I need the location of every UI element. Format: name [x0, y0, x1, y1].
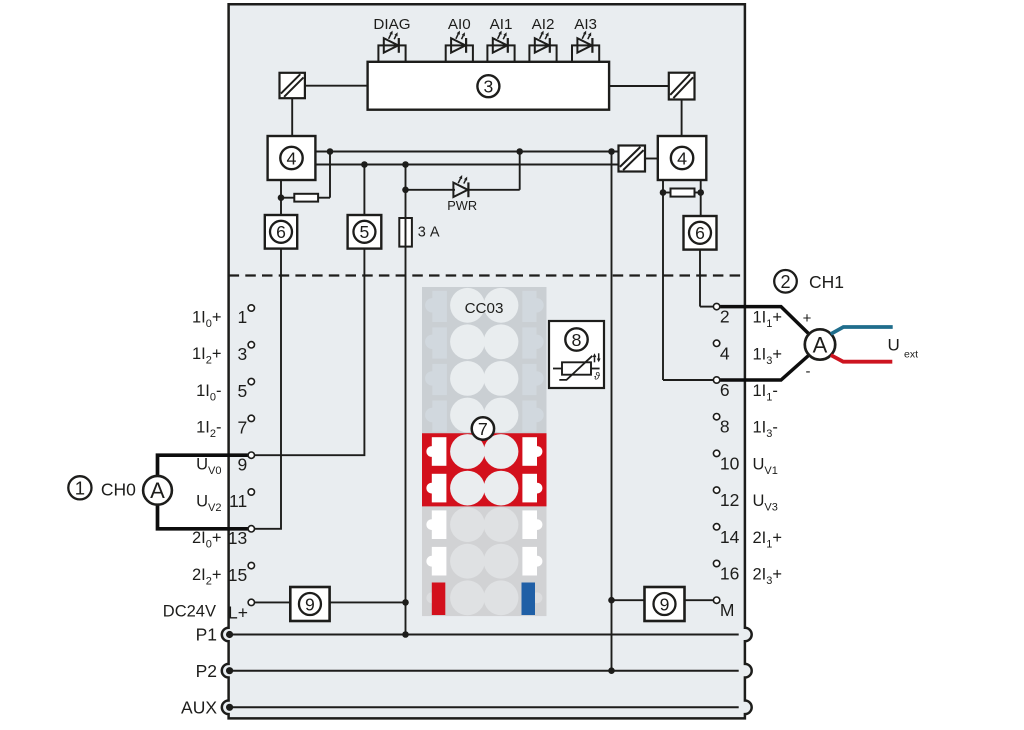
isolation barrier right top: [669, 73, 695, 100]
junction x611 P2: [608, 667, 615, 674]
svg-text:AI1: AI1: [490, 16, 513, 33]
block 9 right (protection): [645, 587, 685, 621]
wire PWR branch right: [469, 189, 520, 191]
junction PWR branch: [402, 187, 409, 194]
wire PWR branch left: [406, 189, 456, 191]
dashed separator (channel boundary): [229, 274, 745, 276]
block 3 (ADC/logic): [368, 62, 609, 110]
terminal point 10 (right): [713, 450, 719, 456]
svg-text:2: 2: [780, 272, 790, 292]
terminal point 8 (right): [713, 414, 719, 420]
block 5 (voltage input): [348, 215, 382, 249]
block 9 left (reverse polarity protection): [290, 587, 329, 621]
svg-text:2I2+: 2I2+: [192, 566, 222, 588]
wire jog to terminal 2: [700, 306, 714, 308]
wire terminal 2 to ammeter: [719, 307, 809, 335]
terminal point 12 (right): [713, 487, 719, 493]
svg-text:UV2: UV2: [196, 492, 221, 514]
svg-text:UV0: UV0: [196, 456, 221, 478]
terminal point 13 (left): [248, 526, 254, 532]
bottom bus wire: [315, 164, 618, 166]
ammeter A (CH1): [805, 329, 835, 359]
junction top bus x519: [516, 148, 523, 155]
terminal point 16 (right): [713, 560, 719, 566]
terminal L+ wire to block 9 left: [254, 601, 290, 603]
isolation barrier left: [280, 73, 305, 98]
wire block6L down to terminal 13: [254, 249, 281, 529]
module body outline: [222, 4, 752, 718]
svg-text:16: 16: [720, 564, 739, 584]
svg-text:3: 3: [237, 344, 247, 364]
svg-text:7: 7: [478, 419, 488, 439]
resistor right lead left: [663, 192, 671, 194]
circled 3 label: [477, 75, 499, 97]
contact dot AUX: [226, 704, 233, 711]
wire ammeter CH0 bottom: [158, 505, 255, 529]
legend 2 (channel 1): [774, 270, 797, 293]
svg-text:4: 4: [720, 343, 730, 363]
resistor right body: [671, 189, 695, 197]
resistor R left: [294, 194, 318, 202]
svg-text:UV1: UV1: [753, 455, 778, 477]
wire PWR up to top bus: [519, 152, 521, 190]
svg-text:CH1: CH1: [809, 272, 844, 292]
wire U ext positive (blue): [831, 327, 893, 334]
svg-text:9: 9: [305, 594, 315, 614]
LED AI2 with stub: [529, 31, 556, 62]
junction bottom bus x364: [361, 161, 368, 168]
svg-text:12: 12: [720, 490, 739, 510]
terminal point 14 (right): [713, 524, 719, 530]
svg-text:1: 1: [237, 307, 247, 327]
svg-text:2I1+: 2I1+: [753, 529, 783, 551]
terminal point 11 (left): [248, 489, 254, 495]
svg-text:CC03: CC03: [465, 300, 504, 317]
block 6 left (input circuit): [265, 215, 297, 249]
svg-text:2I3+: 2I3+: [753, 566, 783, 588]
wire ammeter CH0 top: [158, 455, 255, 476]
svg-text:PWR: PWR: [447, 198, 477, 213]
wire terminal 9 to block 5: [254, 249, 364, 456]
wire top bus junction down to P2: [611, 152, 613, 671]
terminal block coding element CC03: [422, 287, 547, 616]
terminal point 5 (left): [248, 378, 254, 384]
svg-text:3: 3: [484, 77, 494, 97]
wire block5 up to bottom bus: [363, 165, 365, 216]
block 8 (varistor/thermistor protection): [549, 321, 604, 388]
svg-text:ext: ext: [904, 349, 918, 361]
svg-text:8: 8: [572, 330, 582, 350]
svg-text:1I0-: 1I0-: [196, 382, 221, 404]
svg-text:1I2-: 1I2-: [196, 419, 221, 441]
block 6 right (current limiter): [684, 216, 717, 250]
junction right resistor left: [660, 189, 667, 196]
junction top bus x611: [608, 148, 615, 155]
isolation barrier right mid: [619, 146, 646, 172]
svg-text:5: 5: [237, 381, 247, 401]
svg-text:1I1+: 1I1+: [753, 309, 783, 331]
LED AI3 with stub: [572, 31, 599, 62]
ammeter A (CH0): [143, 476, 172, 505]
junction top bus x330: [327, 148, 334, 155]
wire block9R to terminal M: [685, 599, 714, 601]
wire right isolator down to block 4 right: [681, 100, 683, 137]
svg-text:1I2+: 1I2+: [192, 345, 222, 367]
wire mid isolator to block4R: [645, 158, 658, 160]
junction x611 M wire: [608, 597, 615, 604]
wire block3 to right isolator: [609, 85, 669, 87]
svg-text:4: 4: [677, 148, 687, 168]
wire terminal 6 to ammeter: [719, 355, 809, 380]
svg-text:1I3-: 1I3-: [753, 419, 778, 441]
contact dot P2: [226, 667, 233, 674]
wire block4L down to block 6: [280, 180, 282, 215]
svg-text:11: 11: [229, 491, 247, 511]
wire block4R pin B down: [700, 180, 702, 216]
svg-text:A: A: [150, 478, 165, 503]
wire block6R down to terminal 2: [699, 250, 701, 307]
terminal point L+ (left): [248, 599, 254, 605]
junction right resistor right: [697, 189, 704, 196]
svg-text:3 A: 3 A: [418, 225, 440, 241]
svg-text:4: 4: [287, 148, 297, 168]
rail P1: [229, 634, 739, 636]
svg-text:14: 14: [720, 527, 740, 547]
svg-text:2: 2: [720, 307, 730, 327]
svg-text:5: 5: [360, 222, 370, 242]
legend 1 (channel 0): [68, 476, 91, 499]
svg-text:AI3: AI3: [574, 16, 597, 33]
wire block4R pin A down: [662, 180, 664, 380]
rail AUX: [229, 706, 739, 708]
resistor left lead: [281, 197, 294, 199]
svg-text:1: 1: [75, 477, 85, 498]
svg-text:9: 9: [660, 594, 670, 614]
svg-text:CH0: CH0: [101, 479, 136, 499]
terminal point M (right): [713, 597, 719, 603]
circled 7 label (coding element): [472, 417, 494, 439]
wire bottom bus to fuse: [405, 165, 407, 219]
svg-text:6: 6: [695, 223, 705, 243]
svg-text:9: 9: [237, 454, 247, 474]
svg-text:6: 6: [720, 380, 730, 400]
wire fuse down to P1: [405, 246, 407, 635]
junction bottom bus x405: [402, 161, 409, 168]
terminal point 15 (left): [248, 562, 254, 568]
top bus wire: [315, 151, 618, 153]
svg-text:7: 7: [237, 418, 247, 438]
terminal point 2 (right): [713, 303, 719, 309]
contact dot P1: [226, 631, 233, 638]
terminal point 9 (left): [248, 452, 254, 458]
svg-text:AI2: AI2: [532, 16, 555, 33]
svg-text:A: A: [813, 333, 828, 358]
terminal point 3 (left): [248, 342, 254, 348]
LED AI0 with stub: [446, 31, 473, 62]
svg-text:15: 15: [228, 565, 247, 585]
svg-text:13: 13: [228, 528, 247, 548]
block 4 right (ADC): [658, 136, 707, 180]
wire block3 to left isolator: [305, 85, 368, 87]
fuse 3A body: [399, 218, 412, 247]
svg-text:2I0+: 2I0+: [192, 529, 222, 551]
svg-text:8: 8: [720, 417, 730, 437]
resistor right lead right: [695, 192, 701, 194]
svg-text:AUX: AUX: [181, 698, 217, 718]
wire to terminal 6 jog: [663, 379, 714, 381]
svg-text:U: U: [888, 336, 900, 355]
terminal point 4 (right): [713, 340, 719, 346]
terminal point 1 (left): [248, 305, 254, 311]
junction x405 P1: [402, 631, 409, 638]
svg-text:P1: P1: [196, 625, 217, 645]
svg-text:10: 10: [720, 453, 740, 473]
svg-text:1I3+: 1I3+: [753, 345, 783, 367]
svg-text:P2: P2: [196, 661, 217, 681]
svg-text:UV3: UV3: [753, 492, 778, 513]
svg-text:1I1-: 1I1-: [753, 382, 778, 404]
terminal point 7 (left): [248, 415, 254, 421]
svg-text:-: -: [806, 363, 811, 380]
wire P2 branch to block 9 right: [612, 599, 645, 601]
resistor right lead: [318, 197, 330, 199]
svg-text:DIAG: DIAG: [373, 16, 410, 33]
svg-text:1I0+: 1I0+: [192, 308, 222, 330]
svg-text:M: M: [720, 600, 735, 620]
svg-text:AI0: AI0: [448, 16, 471, 33]
terminal point 6 (right): [713, 377, 719, 383]
wire left isolator to block 4 left: [291, 98, 293, 136]
LED DIAG with stub: [378, 31, 405, 62]
svg-text:L+: L+: [228, 602, 248, 622]
LED PWR: [453, 175, 468, 197]
wire U ext negative (red): [831, 355, 893, 362]
junction resistor-left: [278, 194, 285, 201]
block 4 left (ADC): [268, 136, 316, 180]
junction x405 L+ wire: [402, 599, 409, 606]
LED AI1 with stub: [487, 31, 514, 62]
rail P2: [229, 670, 739, 672]
wire resistor to top bus: [329, 152, 331, 198]
wire block9L to P1 branch: [330, 601, 406, 603]
svg-text:+: +: [803, 310, 812, 327]
svg-text:6: 6: [276, 222, 286, 242]
svg-text:DC24V: DC24V: [163, 603, 216, 621]
